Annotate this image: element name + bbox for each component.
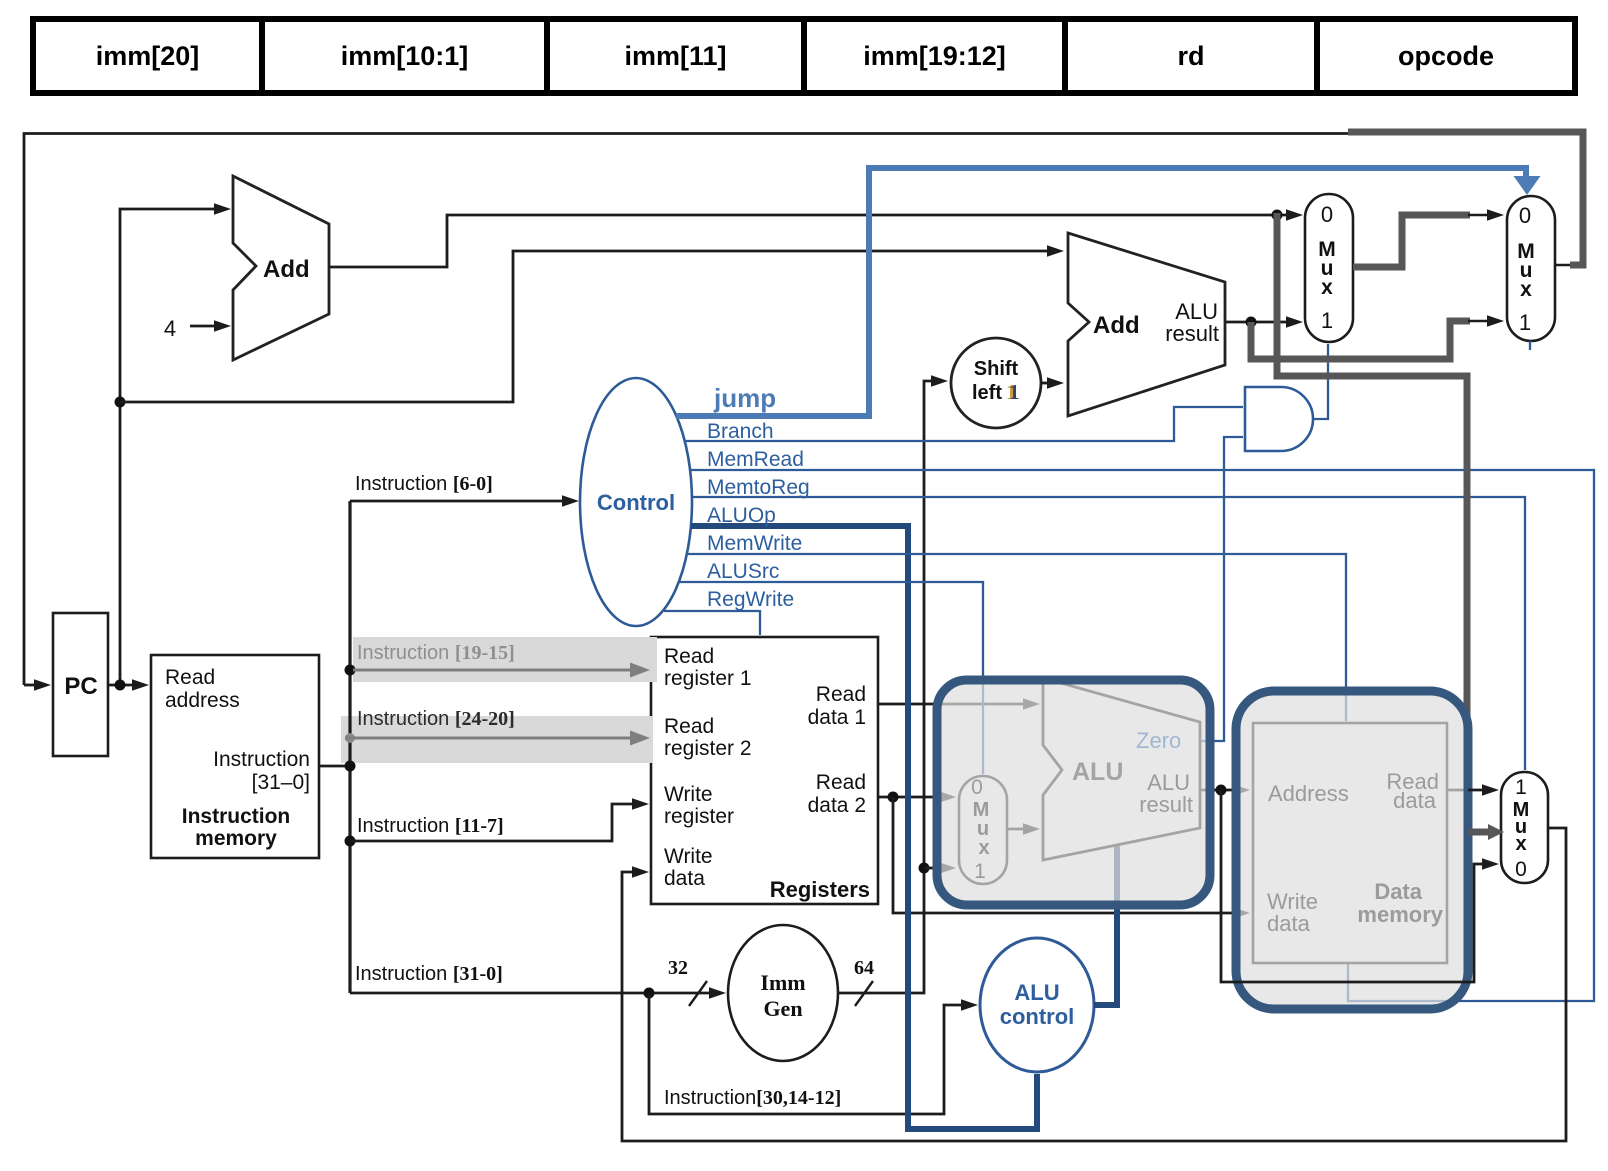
- svg-text:control: control: [1000, 1004, 1075, 1029]
- wire MemRead to data memory: [690, 470, 1594, 1001]
- svg-text:Gen: Gen: [763, 996, 802, 1021]
- svg-text:1: 1: [974, 860, 986, 883]
- highlight border data memory region: [1236, 691, 1468, 1009]
- control unit oval: [580, 378, 692, 626]
- node instr bus junction d: [345, 836, 356, 847]
- wire read data stub inside highlight (gray): [1447, 789, 1464, 792]
- svg-text:Instruction[30,14-12]: Instruction[30,14-12]: [664, 1087, 841, 1109]
- svg-text:Read: Read: [816, 683, 866, 706]
- svg-text:data 2: data 2: [808, 794, 866, 817]
- svg-text:ALUOp: ALUOp: [707, 504, 776, 527]
- wire thick gray arrow into mux C: [1468, 829, 1488, 836]
- wire mux B output PC loop (thick gray): [1555, 264, 1574, 267]
- svg-text:Write: Write: [664, 845, 713, 868]
- stub mux B select: [1529, 341, 1531, 350]
- svg-text:data: data: [1393, 788, 1437, 813]
- svg-text:Shift: Shift: [974, 358, 1019, 380]
- wire mux C output writeback loop: [622, 828, 1566, 1141]
- svg-text:rd: rd: [1178, 41, 1205, 71]
- svg-text:Branch: Branch: [707, 420, 774, 443]
- svg-text:jump: jump: [713, 383, 776, 413]
- mux B (jump mux 0/1): [1507, 196, 1555, 341]
- svg-text:ALU: ALU: [1072, 758, 1123, 786]
- wire read data to mux C input 1: [1468, 789, 1485, 792]
- svg-text:Add: Add: [263, 256, 310, 283]
- svg-text:Read: Read: [664, 715, 714, 738]
- svg-text:x: x: [978, 837, 989, 859]
- svg-text:4: 4: [164, 316, 176, 341]
- svg-text:Imm: Imm: [760, 970, 805, 995]
- wire mux A output to mux B input 0 (thick gray): [1353, 215, 1470, 267]
- svg-text:Instruction: Instruction: [213, 748, 310, 771]
- node instr bus junction b gray: [345, 733, 355, 743]
- svg-text:Write: Write: [664, 783, 713, 806]
- node immgen out split: [919, 863, 930, 874]
- svg-text:imm[19:12]: imm[19:12]: [863, 41, 1006, 71]
- node branch target split: [1246, 317, 1257, 328]
- svg-text:data: data: [1267, 911, 1311, 936]
- svg-text:left: left: [972, 382, 1002, 404]
- node instr bus junction a: [345, 665, 356, 676]
- node read data 2 split: [888, 792, 899, 803]
- wire gray arrow Instruction 24-20: [345, 737, 633, 740]
- gray bar instruction [19-15]: [353, 637, 657, 682]
- highlight overlay data memory region: [1236, 691, 1468, 1009]
- svg-text:MemWrite: MemWrite: [707, 532, 802, 555]
- wire Instruction 30,14-12 to ALU control: [649, 993, 964, 1114]
- wire RegWrite to registers: [664, 611, 760, 635]
- wire read data 1 to ALU: [878, 703, 1026, 706]
- svg-text:register 1: register 1: [664, 667, 752, 690]
- wire gray arrow Instruction 19-15: [353, 669, 633, 672]
- svg-text:Add: Add: [1093, 312, 1140, 339]
- adder Add (branch target, ALU result): [1068, 233, 1225, 416]
- mux C (write-back mux 1/0): [1501, 772, 1548, 883]
- wire branch target to mux B input 1 (thick gray): [1251, 321, 1470, 359]
- svg-text:0: 0: [1321, 202, 1333, 227]
- wire jump (thick blue): [676, 168, 1526, 416]
- svg-text:x: x: [1515, 833, 1526, 855]
- slash 32: [689, 981, 707, 1006]
- svg-text:MemRead: MemRead: [707, 448, 804, 471]
- wire immgen to ALUSrc mux input 1: [924, 867, 942, 870]
- wire read data 2 down to data memory write data: [893, 797, 1236, 913]
- gray bar instruction [24-20]: [341, 716, 653, 763]
- svg-text:Address: Address: [1268, 781, 1349, 806]
- svg-text:1: 1: [1321, 308, 1333, 333]
- svg-text:register 2: register 2: [664, 737, 752, 760]
- wire Branch to AND gate: [685, 407, 1243, 441]
- wire 4 into Add: [190, 325, 217, 328]
- instruction format table: [33, 19, 1575, 93]
- node PC out: [115, 680, 126, 691]
- svg-text:memory: memory: [1357, 902, 1443, 927]
- svg-text:imm[11]: imm[11]: [624, 41, 726, 71]
- svg-text:memory: memory: [195, 827, 277, 850]
- svg-text:Zero: Zero: [1136, 728, 1181, 753]
- wire instruction bus vertical: [348, 501, 351, 993]
- svg-text:Read: Read: [816, 771, 866, 794]
- svg-text:0: 0: [971, 776, 983, 799]
- node PC branch split: [115, 397, 126, 408]
- wire mux B output PC loop gray part: [1348, 132, 1583, 265]
- svg-text:Instruction [11-7]: Instruction [11-7]: [357, 815, 504, 837]
- highlight border ALU region: [937, 680, 1210, 905]
- node instr bus junction c: [345, 761, 356, 772]
- ALU control unit: [980, 938, 1094, 1072]
- mux A (branch mux 0/1): [1305, 194, 1353, 342]
- wire MemWrite to data memory: [687, 554, 1346, 721]
- wire Add output PC+4 to mux A input 0: [329, 215, 1289, 267]
- svg-text:Instruction [31-0]: Instruction [31-0]: [355, 963, 503, 985]
- wire ALUSrc mux output to ALU (gray): [1007, 828, 1026, 831]
- wire Zero to AND gate: [1200, 437, 1243, 741]
- node ALU result split: [1216, 785, 1227, 796]
- svg-text:0: 0: [1515, 858, 1527, 881]
- svg-text:data 1: data 1: [808, 706, 866, 729]
- wire PC to read address: [108, 684, 136, 687]
- svg-text:[31–0]: [31–0]: [252, 771, 310, 794]
- wire ALUSrc to mux select: [679, 582, 983, 774]
- svg-text:RegWrite: RegWrite: [707, 588, 794, 611]
- svg-text:address: address: [165, 689, 240, 712]
- node instr to immgen/aluctl split: [644, 988, 655, 999]
- immediate generator Imm Gen: [728, 925, 838, 1061]
- instruction memory: [151, 655, 319, 858]
- svg-text:register: register: [664, 805, 734, 828]
- wire read data 2 to ALUSrc mux input 0: [878, 796, 942, 799]
- svg-text:MemtoReg: MemtoReg: [707, 476, 810, 499]
- wire branch adder output to mux A input 1: [1225, 321, 1289, 324]
- wire Instruction 31-0 to Imm Gen: [350, 992, 712, 995]
- svg-text:x: x: [1520, 278, 1532, 301]
- svg-text:Read: Read: [664, 645, 714, 668]
- svg-text:PC: PC: [64, 673, 97, 700]
- svg-text:data: data: [664, 867, 705, 890]
- AND gate (branch and zero): [1245, 387, 1313, 451]
- svg-text:Data: Data: [1374, 879, 1422, 904]
- PC register: [53, 613, 108, 756]
- wire instruction memory output: [319, 765, 350, 768]
- svg-text:x: x: [1321, 276, 1333, 299]
- svg-text:1: 1: [1009, 380, 1020, 404]
- svg-text:64: 64: [854, 957, 874, 979]
- wire PC up to Add and branch adder: [120, 209, 217, 685]
- wire AND output to mux A select: [1313, 344, 1328, 419]
- svg-text:Instruction: Instruction: [182, 805, 291, 828]
- svg-text:ALUSrc: ALUSrc: [707, 560, 779, 583]
- wire ALU result to data memory address: [1200, 789, 1236, 792]
- svg-text:result: result: [1139, 792, 1193, 817]
- svg-text:Instruction [6-0]: Instruction [6-0]: [355, 473, 493, 495]
- highlight overlay ALU region: [937, 680, 1210, 905]
- data memory box (grayed): [1253, 723, 1447, 963]
- slash 64: [855, 981, 873, 1006]
- wire Imm Gen output riser: [838, 381, 934, 993]
- svg-text:opcode: opcode: [1398, 41, 1494, 71]
- wire ALU control output to ALU (thick navy): [1094, 846, 1117, 1005]
- wire ALUOp to ALU control (thick navy): [691, 526, 1037, 1129]
- svg-text:result: result: [1165, 321, 1219, 346]
- wire Instruction 6-0 into Control: [350, 500, 565, 503]
- svg-text:0: 0: [1519, 203, 1531, 228]
- shift left 1 unit: [951, 338, 1041, 428]
- svg-text:Registers: Registers: [770, 877, 870, 902]
- registers file: [651, 637, 878, 904]
- wire Instruction 11-7 to write register: [350, 804, 635, 841]
- svg-text:Instruction [19-15]: Instruction [19-15]: [357, 642, 515, 664]
- ALUSrc mux (grayed): [959, 776, 1007, 884]
- svg-text:Instruction [24-20]: Instruction [24-20]: [357, 708, 515, 730]
- svg-text:imm[20]: imm[20]: [96, 41, 200, 71]
- svg-text:Read: Read: [165, 666, 215, 689]
- svg-text:imm[10:1]: imm[10:1]: [341, 41, 469, 71]
- wire PC+4 down to mux C (thick gray): [1277, 213, 1467, 831]
- wire shift left 1 to branch adder: [1041, 382, 1050, 385]
- wire MemtoReg to mux C select: [692, 497, 1525, 770]
- svg-text:1: 1: [1519, 310, 1531, 335]
- adder Add (PC+4): [233, 176, 329, 360]
- wire into PC: [24, 684, 38, 687]
- svg-text:32: 32: [668, 957, 688, 979]
- svg-text:ALU: ALU: [1014, 980, 1059, 1005]
- node PC+4 split: [1272, 210, 1283, 221]
- wire ALU result down to mux C input 0: [1221, 790, 1485, 982]
- svg-text:Control: Control: [597, 490, 675, 515]
- wire PC to branch Add input: [120, 251, 1050, 402]
- wire PC feedback top frame: [24, 134, 1352, 686]
- svg-text:1: 1: [1515, 776, 1527, 799]
- ALU trapezoid (grayed): [1043, 678, 1200, 860]
